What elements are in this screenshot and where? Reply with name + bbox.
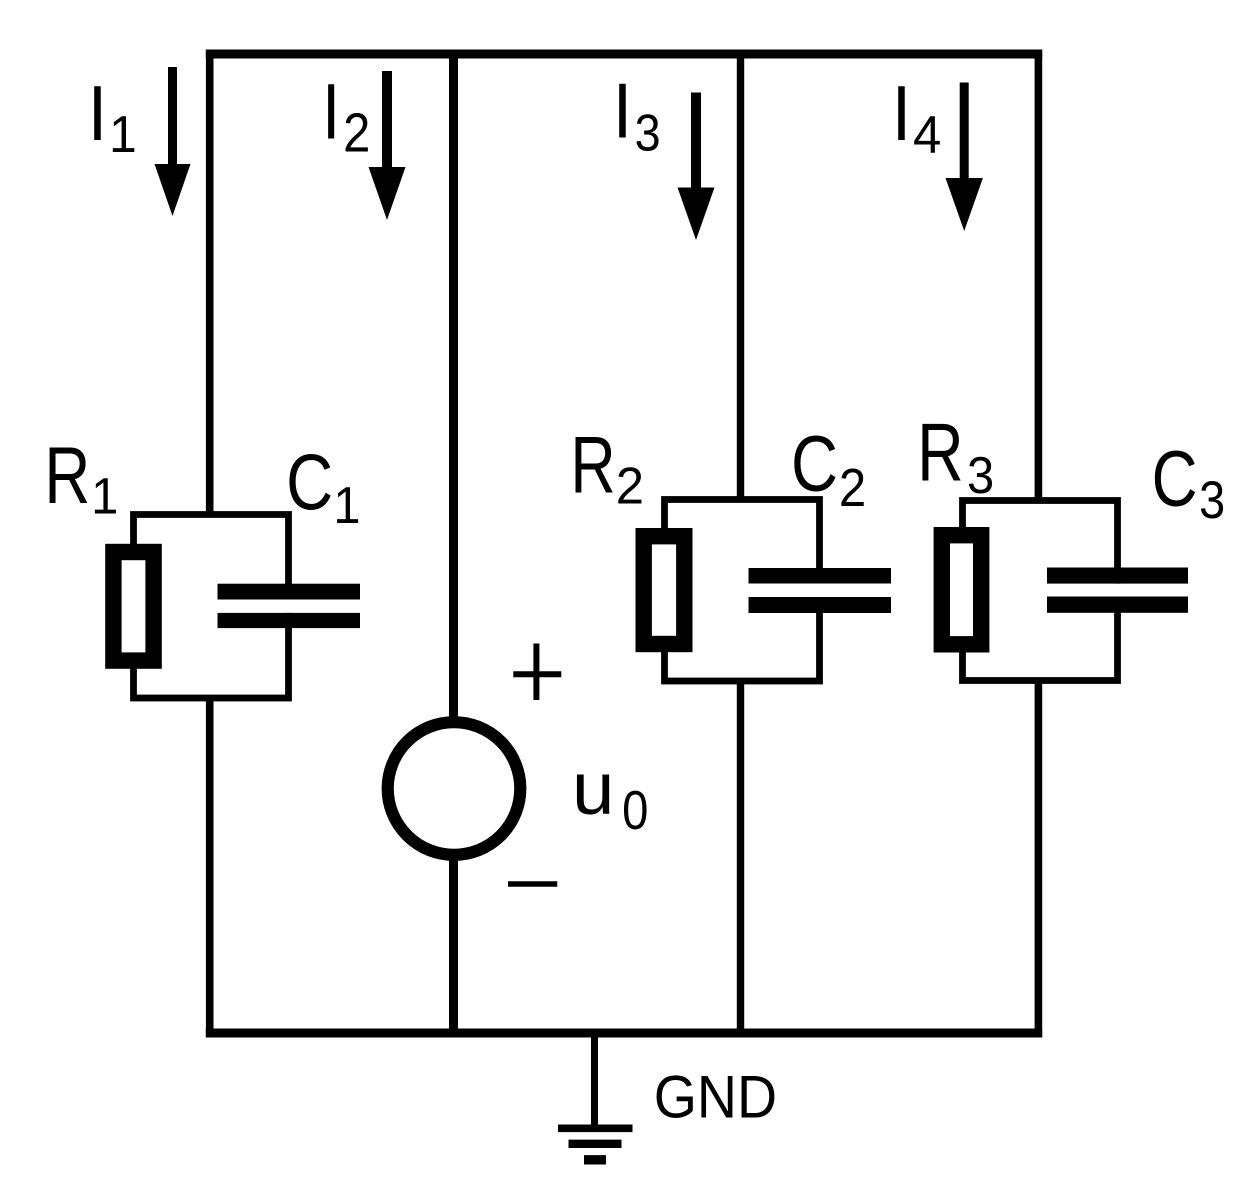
wire bottom rail bbox=[206, 1029, 1042, 1038]
capacitor C1 bbox=[218, 600, 361, 613]
svg-text:I: I bbox=[88, 69, 107, 157]
node loop R3C3 (parallel connection) bbox=[963, 501, 1118, 681]
resistor R1 bbox=[113, 552, 153, 661]
svg-text:GND: GND bbox=[654, 1065, 777, 1131]
node loop R2C2 (parallel connection) bbox=[665, 500, 820, 682]
arrow I4 bbox=[946, 83, 983, 232]
svg-text:C: C bbox=[286, 438, 333, 527]
svg-text:1: 1 bbox=[109, 105, 137, 163]
resistor R3 bbox=[942, 535, 981, 644]
svg-text:R: R bbox=[570, 421, 615, 510]
svg-text:2: 2 bbox=[616, 457, 644, 514]
arrow I1 bbox=[155, 67, 191, 216]
svg-text:I: I bbox=[613, 67, 632, 154]
svg-text:3: 3 bbox=[635, 104, 661, 162]
svg-text:R: R bbox=[44, 431, 90, 521]
minus sign bbox=[508, 881, 557, 887]
svg-text:3: 3 bbox=[1199, 470, 1225, 529]
capacitor C3 bbox=[1047, 584, 1188, 597]
wire branch 1 (I1, left) bbox=[206, 50, 214, 1038]
svg-text:I: I bbox=[892, 69, 911, 157]
svg-text:2: 2 bbox=[839, 457, 866, 517]
svg-text:0: 0 bbox=[622, 780, 648, 841]
wire top rail bbox=[206, 50, 1042, 59]
wire branch 2 (u0) bbox=[449, 50, 458, 1038]
node loop R1C1 (parallel connection) bbox=[134, 515, 289, 699]
wire branch 3 (I3, R2C2) bbox=[737, 50, 744, 1038]
arrow I2 bbox=[369, 71, 406, 220]
wire branch 4 (I4, R3C3, right) bbox=[1035, 50, 1043, 1038]
svg-text:3: 3 bbox=[967, 446, 994, 505]
plus sign bbox=[513, 644, 561, 701]
capacitor C2 bbox=[749, 584, 892, 598]
svg-text:1: 1 bbox=[333, 475, 360, 534]
svg-text:C: C bbox=[1152, 435, 1198, 523]
svg-text:I: I bbox=[322, 69, 340, 156]
svg-text:C: C bbox=[791, 419, 838, 507]
ground bbox=[591, 1037, 598, 1128]
svg-text:4: 4 bbox=[913, 106, 941, 165]
arrow I3 bbox=[678, 93, 715, 241]
svg-text:R: R bbox=[917, 406, 964, 499]
svg-text:2: 2 bbox=[343, 102, 370, 163]
resistor R2 bbox=[644, 536, 685, 644]
svg-text:1: 1 bbox=[91, 467, 118, 524]
voltage source u0 bbox=[388, 722, 521, 855]
svg-text:u: u bbox=[572, 747, 614, 830]
